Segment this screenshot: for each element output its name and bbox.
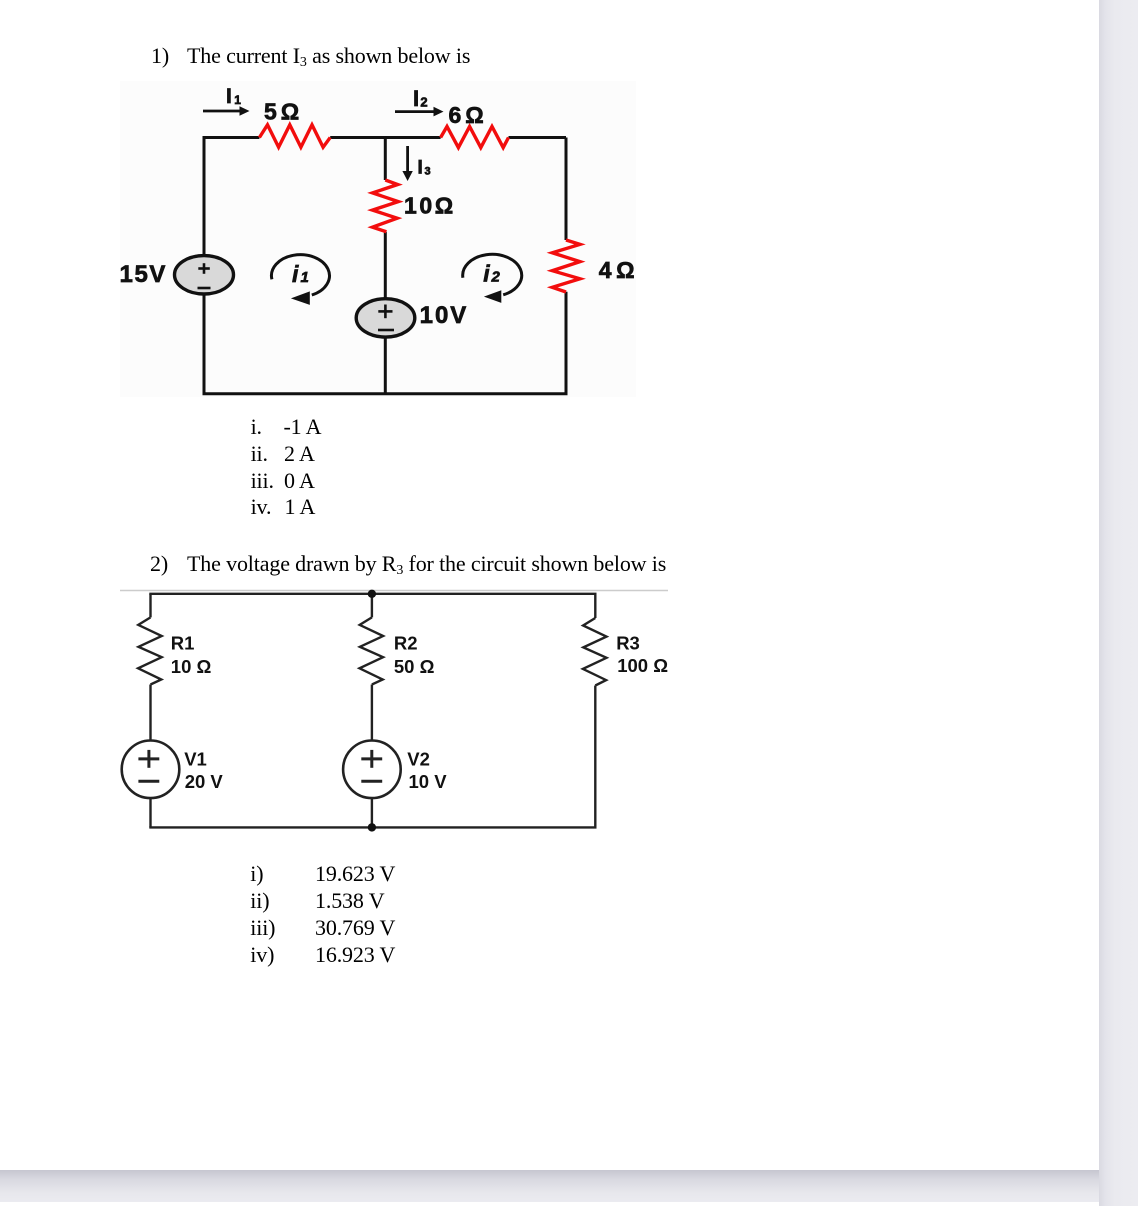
svg-text:2: 2 xyxy=(491,269,501,286)
wire middle vertical upper xyxy=(384,138,387,181)
svg-text:6Ω: 6Ω xyxy=(449,102,488,128)
wire right vertical top xyxy=(594,594,596,618)
svg-text:15V: 15V xyxy=(120,261,167,288)
wire bottom xyxy=(149,826,596,828)
image top border xyxy=(120,590,668,592)
svg-text:R1: R1 xyxy=(171,633,195,654)
svg-text:R3: R3 xyxy=(616,632,640,653)
svg-text:1: 1 xyxy=(234,93,241,107)
right margin shadow strip xyxy=(1099,0,1138,1206)
svg-text:20 V: 20 V xyxy=(185,771,224,792)
question 2 options xyxy=(250,863,263,885)
svg-text:3: 3 xyxy=(425,165,431,177)
gap between pages xyxy=(0,1170,1099,1202)
mesh loop i2 xyxy=(463,254,522,294)
source V2 xyxy=(343,741,401,799)
svg-text:1: 1 xyxy=(301,269,309,286)
wire top segment c xyxy=(509,136,567,139)
resistor R3 xyxy=(583,618,607,686)
wire middle vertical lower xyxy=(384,336,387,395)
question 2 text xyxy=(150,553,168,575)
svg-text:50 Ω: 50 Ω xyxy=(394,656,435,677)
svg-text:10V: 10V xyxy=(420,302,469,329)
wire middle vertical mid xyxy=(384,232,387,299)
source 10V xyxy=(356,299,415,337)
wire left vertical bottom xyxy=(149,798,151,827)
source V1 xyxy=(122,741,180,799)
resistor 6ohm xyxy=(441,127,509,148)
svg-text:I: I xyxy=(413,86,419,111)
question 1 text xyxy=(151,45,169,67)
wire mid vertical bottom xyxy=(371,798,373,827)
wire left vertical top xyxy=(149,594,151,618)
wire left vertical lower xyxy=(203,295,206,394)
wire top segment b xyxy=(330,136,440,139)
current arrow I3 xyxy=(406,146,409,171)
svg-text:2: 2 xyxy=(420,95,427,110)
svg-text:5Ω: 5Ω xyxy=(264,99,303,125)
junction dot bottom xyxy=(368,823,376,831)
wire top xyxy=(149,593,596,595)
wire left vertical mid xyxy=(149,685,151,741)
svg-text:V2: V2 xyxy=(407,748,430,769)
wire mid vertical mid xyxy=(371,685,373,741)
svg-text:100 Ω: 100 Ω xyxy=(617,655,668,676)
svg-text:4Ω: 4Ω xyxy=(599,257,636,283)
svg-text:I: I xyxy=(226,85,232,108)
svg-text:i: i xyxy=(292,261,299,287)
svg-text:R2: R2 xyxy=(394,633,418,654)
resistor 5ohm xyxy=(259,125,330,147)
source 15V xyxy=(175,256,234,294)
svg-text:i: i xyxy=(483,261,490,287)
circuit 1 image xyxy=(120,81,636,397)
wire top segment a xyxy=(203,136,260,139)
svg-text:10 Ω: 10 Ω xyxy=(171,656,212,677)
mesh loop i1 xyxy=(271,255,329,295)
wire left vertical xyxy=(203,136,206,256)
svg-text:V1: V1 xyxy=(184,748,207,769)
wire right vertical upper xyxy=(565,138,568,241)
junction dot top xyxy=(368,590,376,598)
resistor R1 xyxy=(138,617,162,684)
resistor R2 xyxy=(360,617,384,684)
wire right vertical lower xyxy=(565,292,568,394)
resistor 10ohm xyxy=(373,180,399,232)
current arrow I2 xyxy=(395,110,434,113)
resistor 4ohm xyxy=(552,240,580,292)
page 2 top sliver xyxy=(0,1202,1099,1206)
svg-text:10Ω: 10Ω xyxy=(404,192,456,218)
svg-text:I: I xyxy=(418,158,423,179)
wire mid vertical top xyxy=(371,594,373,618)
question 1 options xyxy=(251,416,262,438)
wire bottom xyxy=(203,392,568,395)
current arrow I1 xyxy=(203,110,240,113)
svg-text:10 V: 10 V xyxy=(409,771,448,792)
wire right vertical bottom xyxy=(594,686,596,828)
circuit 2 image xyxy=(118,585,670,837)
